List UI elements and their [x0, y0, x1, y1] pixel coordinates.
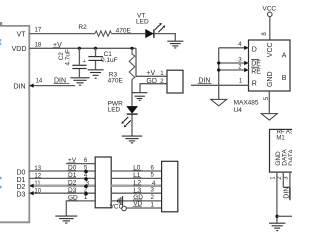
LED PWR [108, 101, 138, 128]
ground (C1) [88, 70, 104, 78]
resistor R3 470E [108, 48, 135, 84]
net label D0 [68, 165, 77, 172]
svg-text:0.1uF: 0.1uF [101, 57, 118, 64]
wire L0 [111, 170, 161, 172]
ground (VT LED) [167, 41, 183, 48]
input arrow pin3 [244, 61, 248, 65]
wire VD [126, 207, 161, 209]
svg-text:MAX485: MAX485 [234, 100, 259, 107]
junction dot D3 [84, 192, 88, 196]
wire D2 (highlighted thick) [29, 185, 95, 188]
power symbol VCC on VD wire [110, 204, 127, 211]
svg-text:U4: U4 [234, 107, 243, 114]
pin label DE (overline) [251, 60, 261, 68]
wire DIN stub [29, 85, 75, 87]
svg-text:14: 14 [36, 79, 43, 85]
junction node C1 [94, 47, 97, 50]
ground (M1) [269, 223, 285, 230]
input arrow pin4 [244, 46, 248, 50]
capacitor C2 4.7uF [58, 48, 86, 77]
wire L1 [111, 177, 161, 179]
ground (GD left) [55, 216, 77, 223]
svg-text:D3: D3 [16, 192, 25, 199]
input arrow D3 [30, 191, 34, 195]
junction node R3 [130, 47, 133, 50]
wire DIN to pin1 R [191, 84, 249, 86]
junction dot GND [275, 215, 278, 218]
svg-text:RE: RE [251, 68, 261, 75]
net label D3 [68, 187, 77, 194]
input arrow pin2 [244, 68, 248, 72]
svg-text:VCC: VCC [267, 42, 274, 57]
net label D2 [68, 179, 77, 186]
wire +V row (pin 6) [66, 163, 95, 165]
net label L3 [133, 187, 142, 194]
wire pin5 GND stub [268, 91, 270, 113]
net label +V [53, 42, 62, 49]
svg-text:D0: D0 [16, 169, 25, 176]
net label GD (mid) [133, 194, 143, 201]
net label VD [133, 201, 143, 208]
svg-text:GD: GD [146, 78, 157, 85]
net label +V (bus) [68, 157, 77, 164]
wire PWR LED to ground [131, 115, 133, 136]
svg-text:DIN: DIN [14, 83, 26, 90]
wire pin4 D [219, 47, 249, 49]
svg-text:R: R [252, 81, 257, 88]
module M1 box [270, 129, 297, 172]
junction node C2 [78, 47, 81, 50]
wire L2 (highlighted thick) [111, 185, 161, 188]
pin label RE (overline) [251, 67, 261, 75]
rotated mini ground on GD wire [118, 196, 123, 206]
VCC symbol [262, 5, 276, 16]
junction dot DE [217, 61, 220, 64]
svg-text:LED: LED [108, 106, 121, 113]
wire GND to right edge [277, 215, 292, 217]
op chip U4 MAX485 box [249, 40, 291, 91]
svg-text:DE: DE [251, 60, 261, 67]
wire M1 pin3 [289, 172, 291, 187]
svg-text:470E: 470E [108, 78, 124, 85]
connector box (left 6-pin) [95, 157, 111, 208]
wire VCC to pin 8 [269, 17, 271, 40]
wire D3 [29, 192, 95, 194]
net label GD (left) [68, 195, 78, 202]
svg-text:+: + [83, 59, 86, 65]
capacitor C1 0.1uF [88, 48, 117, 69]
junction dot RE [217, 68, 220, 71]
wire GD branch [140, 84, 167, 93]
svg-text:B: B [282, 75, 287, 82]
svg-text:RF AS: RF AS [277, 130, 292, 136]
svg-text:VCC: VCC [262, 5, 276, 12]
junction dot D0 [84, 170, 88, 174]
junction dot D1 [84, 177, 88, 181]
svg-text:VT: VT [17, 32, 27, 39]
ground (C2) [70, 78, 89, 85]
wire M1 pin2 [282, 172, 284, 187]
net label DIN (rotated) [284, 187, 291, 200]
wire GD row [66, 201, 95, 216]
svg-text:D1: D1 [16, 177, 25, 184]
ground triangle (D/DE/RE tie) [211, 99, 227, 106]
input arrow DIN pin14 [30, 83, 34, 87]
svg-text:VDD: VDD [12, 46, 27, 53]
wire +V branch to connector [136, 48, 167, 76]
junction dot D2 [84, 185, 88, 189]
svg-text:L2: L2 [133, 180, 141, 187]
svg-text:GND: GND [267, 71, 274, 87]
wire data tie [283, 187, 290, 200]
net label L0 [133, 165, 141, 172]
wire D0 [29, 170, 95, 172]
svg-text:M1: M1 [276, 136, 285, 142]
wire pin3 DE [219, 62, 249, 64]
svg-text:R2: R2 [78, 24, 87, 31]
net label L1 [133, 172, 141, 179]
wire pin2 RE [219, 69, 249, 71]
input arrow D2 [30, 184, 34, 188]
svg-text:D2: D2 [16, 184, 25, 191]
net label DIN (MAX485) [198, 77, 212, 84]
svg-text:DATA: DATA [288, 149, 292, 166]
svg-text:4.7uF: 4.7uF [64, 49, 71, 66]
wire L3 [111, 192, 161, 194]
wire M1 pin1 GND down [276, 172, 278, 223]
ground triangle (U4 pin5) [261, 114, 277, 121]
wire R2 to LED [112, 33, 146, 35]
svg-text:+V: +V [146, 70, 155, 77]
net label D1 [68, 172, 77, 179]
chip U2 (cut off at left edge) [0, 22, 29, 222]
net label L2 [133, 180, 142, 187]
connector +V/GD box [167, 70, 183, 93]
wire LED to ground [154, 34, 175, 41]
svg-text:LED: LED [136, 18, 149, 25]
ground (GD connector) [132, 93, 147, 101]
LED VT (D?) [136, 13, 165, 38]
net label DIN (left) [54, 77, 70, 84]
svg-text:A: A [282, 52, 287, 59]
tie line D/DE/RE to ground [218, 48, 220, 99]
svg-text:17: 17 [35, 28, 42, 34]
wire R3 to PWR LED [131, 79, 133, 106]
wire D1 [29, 177, 95, 179]
ground (PWR LED) [122, 136, 142, 143]
svg-text:18: 18 [35, 42, 42, 48]
resistor R2 [78, 24, 131, 37]
wire VDD pin18 to +V rail [29, 47, 136, 49]
wire VT pin17 [29, 33, 95, 35]
connector box (right 6-pin) [162, 161, 178, 212]
wire GD mid [111, 200, 161, 202]
svg-text:D: D [252, 47, 257, 54]
